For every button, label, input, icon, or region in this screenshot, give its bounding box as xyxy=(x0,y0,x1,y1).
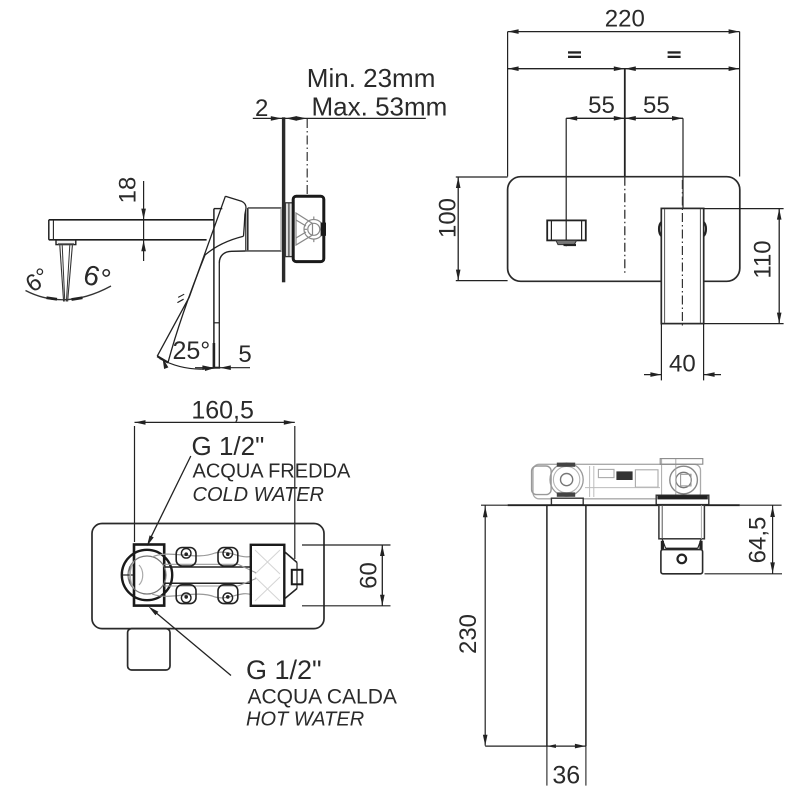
svg-text:6°: 6° xyxy=(80,259,113,296)
screw 2b xyxy=(223,593,233,603)
dim 25deg arc xyxy=(160,358,217,371)
svg-text:25°: 25° xyxy=(173,337,211,365)
dim 100 xyxy=(435,177,508,281)
dim 36 xyxy=(485,744,586,790)
centerline min position xyxy=(306,119,308,196)
svg-text:2: 2 xyxy=(255,95,268,122)
center line vertical xyxy=(624,69,626,177)
svg-text:18: 18 xyxy=(115,177,142,204)
svg-text:5: 5 xyxy=(238,341,251,368)
svg-text:55: 55 xyxy=(643,92,670,119)
svg-text:230: 230 xyxy=(455,614,482,654)
cartridge circle xyxy=(122,550,173,600)
spout side view xyxy=(49,220,214,240)
svg-text:Max. 53mm: Max. 53mm xyxy=(312,92,448,122)
dim 18 xyxy=(115,177,146,261)
svg-text:160,5: 160,5 xyxy=(191,396,254,424)
connecting bar xyxy=(164,564,256,586)
aerator xyxy=(56,240,76,245)
screw 1a xyxy=(181,549,191,559)
svg-text:36: 36 xyxy=(552,762,580,790)
valve stem detail xyxy=(296,213,324,245)
equal spacing dim xyxy=(508,51,740,71)
mechanism left cap xyxy=(532,466,552,495)
valve circles top view xyxy=(670,466,698,494)
cartridge circles top view xyxy=(550,463,583,496)
body neck curve xyxy=(219,251,245,263)
hot water connection block xyxy=(251,545,284,606)
spout outlet front xyxy=(547,220,586,245)
svg-text:HOT WATER: HOT WATER xyxy=(246,709,364,731)
dim 230 xyxy=(455,505,487,745)
svg-text:110: 110 xyxy=(749,240,776,278)
wall plate front view xyxy=(508,177,740,282)
svg-text:ACQUA FREDDA: ACQUA FREDDA xyxy=(193,461,351,483)
bottom outlet xyxy=(128,629,170,670)
mounting bracket 2 xyxy=(218,548,238,604)
svg-text:220: 220 xyxy=(605,5,645,32)
casting detail squiggles xyxy=(130,552,252,598)
wall line xyxy=(481,504,782,506)
mounting bracket 1 xyxy=(176,548,196,604)
screw 1b xyxy=(181,593,191,603)
dim 64,5 xyxy=(705,505,783,573)
cold water connection block xyxy=(134,545,164,606)
dim 55 55 xyxy=(566,92,683,246)
in-wall valve body (side) xyxy=(293,196,324,261)
svg-text:COLD WATER: COLD WATER xyxy=(193,484,325,506)
svg-text:100: 100 xyxy=(435,198,462,238)
svg-text:ACQUA CALDA: ACQUA CALDA xyxy=(248,686,397,709)
dim 160,5 xyxy=(135,396,295,559)
handle grip top view xyxy=(661,550,703,574)
svg-text:40: 40 xyxy=(669,351,696,378)
svg-text:64,5: 64,5 xyxy=(745,517,772,564)
water stream xyxy=(60,245,73,301)
handle lever (open 25deg) xyxy=(157,196,246,362)
spout tube top view xyxy=(547,505,586,785)
handle grip edges behind plate xyxy=(659,222,706,237)
wall plate (side) xyxy=(282,117,285,282)
screw 2a xyxy=(223,549,233,559)
dim 40 xyxy=(644,324,721,380)
mechanism middle details xyxy=(585,459,703,497)
svg-text:55: 55 xyxy=(588,92,615,119)
handle centerline xyxy=(681,180,683,327)
handle closed position (vertical) xyxy=(213,209,220,368)
valve stem end xyxy=(321,223,326,236)
svg-text:6°: 6° xyxy=(21,263,55,298)
dim 60 xyxy=(302,545,391,606)
svg-text:G 1/2": G 1/2" xyxy=(246,655,322,685)
wall spacer xyxy=(285,203,293,257)
dim 220 xyxy=(508,5,740,176)
leader cold water xyxy=(147,456,191,546)
handle top view taper xyxy=(661,539,703,550)
escutcheon (side) xyxy=(246,208,282,251)
connection nose xyxy=(284,552,302,600)
dim 110 xyxy=(704,209,784,324)
in-wall body plan outline xyxy=(92,524,324,629)
spout escutcheon top view xyxy=(551,498,583,505)
hot block X detail xyxy=(255,550,280,601)
svg-text:60: 60 xyxy=(356,562,383,589)
leader hot water xyxy=(149,607,232,676)
dim 5 xyxy=(195,341,252,370)
spray angle arc xyxy=(26,286,112,300)
handle plate front view xyxy=(661,208,703,323)
dim 2 / min-max xyxy=(253,95,426,122)
cartridge body top xyxy=(214,208,222,210)
handle top view neck xyxy=(659,505,705,539)
mechanism top view body xyxy=(533,464,701,499)
handle escutcheon top view xyxy=(656,495,709,504)
svg-text:G 1/2": G 1/2" xyxy=(192,431,265,461)
svg-text:Min. 23mm: Min. 23mm xyxy=(307,63,436,93)
cartridge flange bars xyxy=(557,463,575,467)
